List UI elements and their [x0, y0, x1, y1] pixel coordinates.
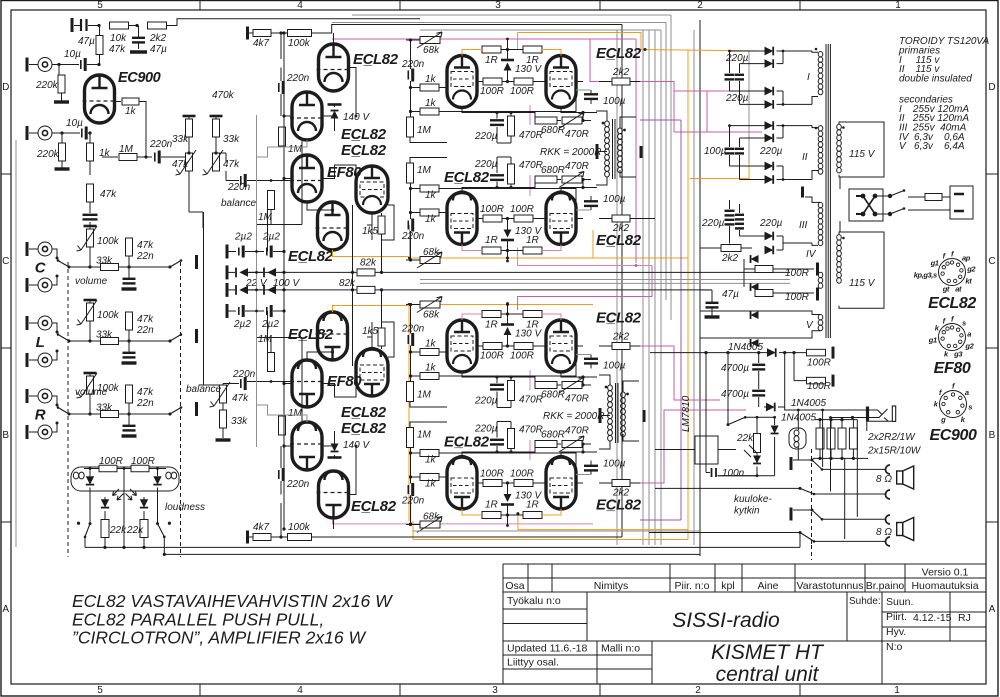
optocoupler coils right: [166, 472, 171, 479]
svg-text:8 Ω: 8 Ω: [876, 474, 892, 485]
svg-text:g3: g3: [953, 349, 963, 358]
svg-text:47µ: 47µ: [722, 289, 739, 300]
svg-text:Br.paino: Br.paino: [866, 580, 905, 592]
cap 220n balance lower: [240, 379, 242, 388]
resistor 1R right out4: [523, 512, 542, 519]
svg-text:33k: 33k: [231, 416, 248, 427]
pot 470R out3: [562, 382, 582, 389]
svg-text:220n: 220n: [401, 231, 425, 242]
mains switch: [888, 194, 892, 198]
resistor 100R left out3: [483, 343, 502, 350]
svg-text:4: 4: [297, 0, 303, 11]
svg-text:1M: 1M: [288, 408, 303, 419]
svg-text:47µ: 47µ: [150, 44, 167, 55]
svg-text:EC900: EC900: [118, 70, 161, 86]
resistor 1k a out4: [420, 474, 439, 481]
svg-text:EF80: EF80: [934, 360, 971, 377]
svg-text:220n: 220n: [401, 324, 425, 335]
speaker 2: [897, 518, 914, 541]
ground cap R: [122, 434, 137, 437]
svg-text:III: III: [799, 220, 808, 231]
secondary winding V: [818, 315, 823, 331]
diode 130V out2: [501, 239, 514, 242]
cap 47u top-left: [71, 18, 74, 32]
resistor 100R psu1: [755, 266, 773, 273]
svg-text:2µ2: 2µ2: [261, 319, 279, 330]
switch row 1: [793, 459, 812, 461]
cap 22n C: [119, 266, 130, 268]
resistor 1M out1: [407, 117, 414, 137]
svg-text:1R: 1R: [485, 320, 498, 331]
cap 47u psu: [706, 302, 719, 304]
svg-text:5: 5: [97, 685, 103, 696]
block wires out3: [410, 305, 412, 334]
cap 100u wires out1: [590, 90, 592, 95]
svg-text:100µ: 100µ: [603, 459, 626, 470]
svg-text:SISSI-radio: SISSI-radio: [672, 609, 780, 632]
left rail vertical: [15, 140, 17, 547]
tube driver-2: [290, 422, 324, 470]
switch out R: [170, 408, 181, 415]
cap 47u second: [132, 37, 145, 39]
transformer wires T1: [596, 111, 607, 121]
LDR right: [140, 499, 148, 507]
cap 220n out4: [407, 485, 409, 494]
tube ECL82 driver-in: [317, 44, 351, 91]
svg-text:470R: 470R: [519, 395, 543, 406]
svg-text:IV: IV: [806, 249, 817, 260]
gray feedback verticals: [616, 30, 618, 545]
resistor 220k input1: [58, 65, 60, 76]
gray top loop 3: [420, 29, 661, 31]
wires rails down: [188, 171, 190, 212]
resistor 22k left: [104, 511, 106, 519]
svg-text:1k: 1k: [425, 479, 437, 490]
svg-text:130 V: 130 V: [515, 491, 542, 502]
svg-text:47k: 47k: [137, 314, 154, 325]
svg-text:volume: volume: [75, 387, 108, 398]
resistor 100R left out4: [483, 480, 502, 487]
svg-text:loudness: loudness: [165, 502, 205, 513]
svg-text:Piirt.: Piirt.: [886, 611, 907, 623]
relay coil wires: [797, 410, 799, 430]
svg-text:47k: 47k: [137, 387, 154, 398]
bus 22V: [248, 271, 790, 273]
orange rail lower mid: [409, 304, 593, 306]
purple vertical: [680, 120, 682, 520]
orange branch block4: [518, 514, 688, 530]
resistor 1M out4: [407, 428, 414, 448]
svg-text:Piir. n:o: Piir. n:o: [674, 580, 709, 592]
cap 100u wires out2: [590, 206, 592, 211]
cap 100u out1: [584, 93, 598, 95]
tube driver-out: [316, 312, 350, 360]
resistor 1M grid: [268, 353, 275, 372]
svg-text:220µ: 220µ: [725, 93, 749, 104]
frame row letters: [2, 82, 996, 615]
LED right in box: [157, 469, 159, 477]
block wires out4: [410, 496, 412, 525]
input jack R2: [27, 425, 52, 439]
svg-text:470k: 470k: [212, 90, 235, 101]
driver wires: [280, 68, 282, 82]
resistor 47k R: [126, 385, 133, 403]
svg-text:10µ: 10µ: [66, 118, 83, 129]
resistor 100R right out1: [514, 78, 533, 85]
cap 220n driver: [278, 83, 280, 92]
pot 470R out1: [562, 117, 582, 124]
rectifier caps: [725, 148, 735, 150]
svg-text:double insulated: double insulated: [899, 74, 972, 85]
svg-text:D: D: [2, 82, 9, 93]
svg-text:1M: 1M: [119, 144, 134, 155]
purple stubs: [640, 119, 681, 121]
svg-text:3: 3: [495, 0, 501, 11]
relay diode wire: [774, 437, 776, 476]
resistor 1R left out1: [482, 46, 501, 53]
input jack L1: [27, 316, 52, 330]
winding IV wires: [773, 268, 814, 270]
diode r2c1: [226, 283, 229, 297]
selector wires L: [52, 323, 57, 332]
wire 100k lower out: [312, 536, 623, 538]
svg-text:EC̲L82: EC̲L82: [351, 498, 397, 515]
svg-text:EC̲L82: EC̲L82: [341, 126, 387, 143]
gray top loop 2: [332, 22, 666, 24]
svg-text:220n: 220n: [401, 496, 425, 507]
ground cap L: [122, 361, 137, 364]
cap 10u input1: [52, 64, 79, 66]
svg-text:EC̲L82: EC̲L82: [596, 310, 642, 327]
gray top loop 1: [352, 14, 671, 16]
svg-text:1k: 1k: [425, 190, 437, 201]
svg-text:kytkin: kytkin: [734, 506, 760, 517]
row wire L: [129, 340, 170, 342]
input jack C2: [27, 278, 52, 292]
svg-text:220n: 220n: [149, 139, 173, 150]
wire 2k2 block2 stub: [630, 218, 655, 220]
svg-text:100R: 100R: [510, 351, 534, 362]
resistor 1M driver: [279, 127, 286, 146]
svg-text:Huomautuksia: Huomautuksia: [911, 580, 978, 592]
svg-text:2k2: 2k2: [612, 67, 630, 78]
svg-text:4: 4: [297, 685, 303, 696]
svg-text:1: 1: [894, 685, 900, 696]
svg-text:115 V: 115 V: [849, 149, 876, 160]
switch out C: [170, 261, 181, 268]
cap 100u out3: [584, 358, 598, 360]
svg-text:2µ2: 2µ2: [233, 319, 251, 330]
svg-text:B: B: [989, 430, 996, 441]
grid feed wire: [247, 381, 292, 383]
svg-text:A: A: [2, 604, 9, 615]
transformer spec text: [898, 36, 990, 152]
switch ground bar 2: [790, 508, 793, 521]
svg-text:100R: 100R: [480, 204, 504, 215]
resistor 100R left out2: [483, 215, 502, 222]
rectifier node top: [782, 126, 784, 138]
selector contact C: [58, 261, 69, 268]
cap 100n: [712, 468, 717, 477]
transformer wires T2: [599, 375, 610, 385]
ground balance lower: [216, 438, 231, 441]
resistor 47k C: [126, 238, 133, 256]
psu diodes left: [751, 255, 759, 263]
switch verticals: [822, 410, 824, 467]
svg-text:g1: g1: [928, 336, 937, 345]
winding III wires: [805, 197, 820, 202]
svg-text:1M: 1M: [258, 212, 273, 223]
wire 1k5 to bus upper: [381, 234, 383, 272]
resistor 1R left out2: [482, 247, 501, 254]
fuse: [925, 194, 942, 201]
svg-text:balance: balance: [221, 198, 256, 209]
cap 100u out4: [584, 465, 598, 467]
jack wires: [798, 409, 866, 411]
wire 1k5 loop: [382, 322, 395, 357]
ground cap C: [122, 287, 137, 290]
tube pentode right out3: [546, 320, 576, 372]
svg-text:Malli n:o: Malli n:o: [601, 643, 640, 655]
svg-text:10k: 10k: [110, 33, 127, 44]
block wires out2: [410, 231, 412, 260]
tube driver-2: [290, 92, 324, 140]
svg-text:EC̲L82: EC̲L82: [341, 420, 387, 437]
cap 100u wires out3: [590, 355, 592, 360]
svg-text:220µ: 220µ: [474, 131, 498, 142]
resistor 47k L: [126, 312, 133, 330]
resistor 100R right out3: [514, 343, 533, 350]
cathode wires out2: [462, 188, 497, 193]
mains plug: [950, 186, 973, 219]
2k2 wires out4: [599, 482, 612, 484]
svg-text:100µ: 100µ: [603, 96, 626, 107]
wire EC900 plate to net: [139, 102, 146, 158]
tube pentode left out3: [447, 320, 477, 372]
svg-text:RKK = 2000R: RKK = 2000R: [543, 411, 604, 422]
magenta block3 feed: [518, 266, 652, 311]
rectifier node bottom: [782, 166, 784, 180]
svg-text:Suun.: Suun.: [886, 596, 913, 608]
svg-text:100k: 100k: [288, 522, 311, 533]
transformer right bar T2: [643, 410, 646, 422]
svg-text:100R: 100R: [131, 456, 155, 467]
svg-text:kpl: kpl: [721, 580, 734, 592]
svg-text:”CIRCLOTRON”, AMPLIFIER 2x16 W: ”CIRCLOTRON”, AMPLIFIER 2x16 W: [72, 628, 366, 648]
resistor 1k a out2: [420, 209, 439, 216]
headphone jack bar: [866, 407, 869, 422]
transformer right bar T1: [640, 146, 643, 158]
cap pair3: [725, 210, 735, 212]
svg-text:33k: 33k: [96, 256, 113, 267]
resistor 1k a out1: [420, 84, 439, 91]
svg-text:4.12.-15: 4.12.-15: [913, 612, 952, 624]
svg-text:EC̲L82: EC̲L82: [341, 142, 387, 159]
resistor 1k b out1: [420, 108, 439, 115]
svg-text:g2: g2: [966, 264, 976, 273]
cathode wires out1: [462, 108, 497, 113]
wire 1k5 loop: [382, 205, 395, 240]
svg-text:1M: 1M: [417, 125, 432, 136]
black bus vertical right: [699, 20, 701, 556]
resistor 1k b out2: [420, 185, 439, 192]
resistor 100R right out4: [514, 480, 533, 487]
svg-text:130 V: 130 V: [515, 64, 542, 75]
svg-text:a: a: [965, 388, 969, 397]
resistor 1R right out2: [523, 247, 542, 254]
diode r1c1: [226, 265, 229, 279]
svg-text:EC̲L82: EC̲L82: [596, 45, 642, 62]
cap 220u out1: [490, 119, 504, 121]
speaker 1: [897, 466, 914, 489]
svg-text:1R: 1R: [485, 55, 498, 66]
diode r1c2: [248, 271, 262, 273]
wires loudness bottom: [84, 537, 86, 548]
wire x256 gray vertical: [256, 115, 258, 447]
resistor 220k input2: [61, 133, 63, 143]
pink bottom feed: [332, 520, 334, 524]
tube EC900 V1: [83, 75, 117, 123]
svg-text:2x2R2/1W: 2x2R2/1W: [867, 432, 916, 443]
interstage transformer T2: [608, 385, 613, 441]
input jack C1: [27, 242, 52, 256]
svg-text:V 6,3v 6,4A: V 6,3v 6,4A: [899, 141, 965, 152]
primary winding 1: [837, 124, 842, 173]
resistor 33k rail-left: [183, 115, 196, 118]
interstage transformer T1: [605, 121, 610, 177]
orange branch 100u upper: [592, 230, 594, 258]
svg-text:68k: 68k: [423, 45, 440, 56]
cap 2u2 r1c2: [245, 251, 264, 253]
svg-text:EC̲L82: EC̲L82: [444, 169, 490, 186]
cap 100u out2: [584, 200, 598, 202]
resistor 2k2 top: [135, 24, 138, 27]
wire x284 bridge: [283, 249, 285, 313]
headphone jack sleeve: [892, 406, 895, 421]
grid leak link: [270, 210, 272, 225]
svg-text:g1: g1: [930, 259, 939, 268]
resistor 470R vert out2: [508, 164, 515, 184]
headphone jack bottom wire: [868, 420, 893, 422]
resistor 100R box left: [99, 465, 117, 472]
grid leak link: [270, 338, 272, 353]
cathode wires out3: [462, 372, 497, 377]
resistor 33k R: [89, 394, 91, 414]
svg-text:220k: 220k: [36, 149, 60, 160]
resistor 1M horizontal: [102, 156, 118, 158]
volume pot 100k R: [84, 372, 97, 375]
resistor 470R vert out3: [508, 381, 515, 401]
svg-text:1R: 1R: [485, 500, 498, 511]
cap 2u2 r2c1: [226, 304, 229, 318]
2k2 wires out3: [599, 345, 612, 347]
svg-text:LM7810: LM7810: [681, 395, 692, 432]
svg-text:100R: 100R: [480, 351, 504, 362]
svg-text:470R: 470R: [519, 130, 543, 141]
resistor 100k upper: [288, 30, 312, 37]
resistor bank top wire: [815, 419, 857, 421]
pot 47k rail-right: [213, 153, 220, 171]
svg-text:Nimitys: Nimitys: [594, 580, 628, 592]
cap 2u2 r2c2: [245, 310, 264, 312]
resistor 470R vert out1: [508, 116, 515, 136]
resistor 1k cathode EC900: [87, 143, 94, 161]
switch row 4: [649, 532, 800, 534]
switch row 3: [793, 509, 812, 511]
resistor 100R psu2: [755, 290, 773, 297]
svg-text:33k: 33k: [96, 403, 113, 414]
wires psu mid: [743, 259, 745, 287]
svg-text:2: 2: [697, 0, 703, 11]
svg-text:KISMET HT: KISMET HT: [711, 641, 825, 664]
diode r2c2: [248, 289, 262, 291]
svg-text:1M: 1M: [417, 430, 432, 441]
resistor 33k C: [89, 247, 91, 267]
row wire C: [129, 266, 170, 268]
gray mid horizontals: [420, 279, 790, 281]
resistor 470R vert out4: [508, 429, 515, 449]
svg-text:Versio 0.1: Versio 0.1: [922, 567, 969, 579]
resistor 33k rail-right: [210, 115, 223, 118]
svg-text:volume: volume: [75, 276, 108, 287]
optocoupler box: [71, 467, 179, 491]
svg-text:220µ: 220µ: [701, 218, 725, 229]
magenta vertical mid: [673, 91, 675, 132]
wire to driver rail: [167, 19, 421, 26]
rectifier node bottom: [782, 91, 784, 104]
svg-text:Hyv.: Hyv.: [886, 626, 906, 638]
resistor 1M out2: [407, 163, 414, 183]
svg-text:82k: 82k: [339, 278, 356, 289]
magenta 2k2 link1: [630, 82, 762, 92]
black top wire: [356, 24, 622, 26]
selector dashed box: [68, 262, 181, 557]
svg-text:EC900: EC900: [930, 427, 977, 444]
resistor 82k bus2: [357, 286, 375, 293]
primary winding 2: [837, 235, 842, 284]
ground input2: [55, 167, 70, 170]
tube pentode left out4: [447, 456, 477, 509]
ground input1: [54, 100, 69, 103]
resistor 1R right out3: [523, 311, 542, 318]
2k2 wires out2: [599, 218, 612, 220]
svg-text:1k: 1k: [425, 74, 437, 85]
resistor 22k psu: [754, 434, 761, 453]
wire 100k to rail upper: [312, 25, 357, 34]
volume pot 100k C: [84, 225, 97, 228]
orange bottom run: [413, 539, 688, 541]
tube ECL82 driver-in: [317, 471, 351, 518]
tube driver-3: [290, 360, 324, 407]
LED bottom wire: [756, 467, 758, 476]
primary link wires: [839, 177, 841, 189]
cap 22n R: [119, 413, 130, 415]
resistor 1M grid: [268, 191, 275, 210]
magenta top run: [332, 38, 636, 40]
switch row 2: [655, 487, 800, 489]
svg-text:100R: 100R: [785, 268, 809, 279]
svg-text:22k: 22k: [736, 433, 754, 444]
long bus C gray: [413, 530, 700, 532]
terminal bar C: [195, 255, 198, 269]
svg-text:1k5: 1k5: [362, 226, 379, 237]
tube pinout ECL82: [939, 259, 966, 286]
svg-text:220µ: 220µ: [759, 218, 783, 229]
svg-text:1M: 1M: [417, 390, 432, 401]
cap 220n out3: [407, 335, 409, 344]
title block grid: [503, 564, 986, 684]
secondary winding I: [818, 52, 823, 95]
